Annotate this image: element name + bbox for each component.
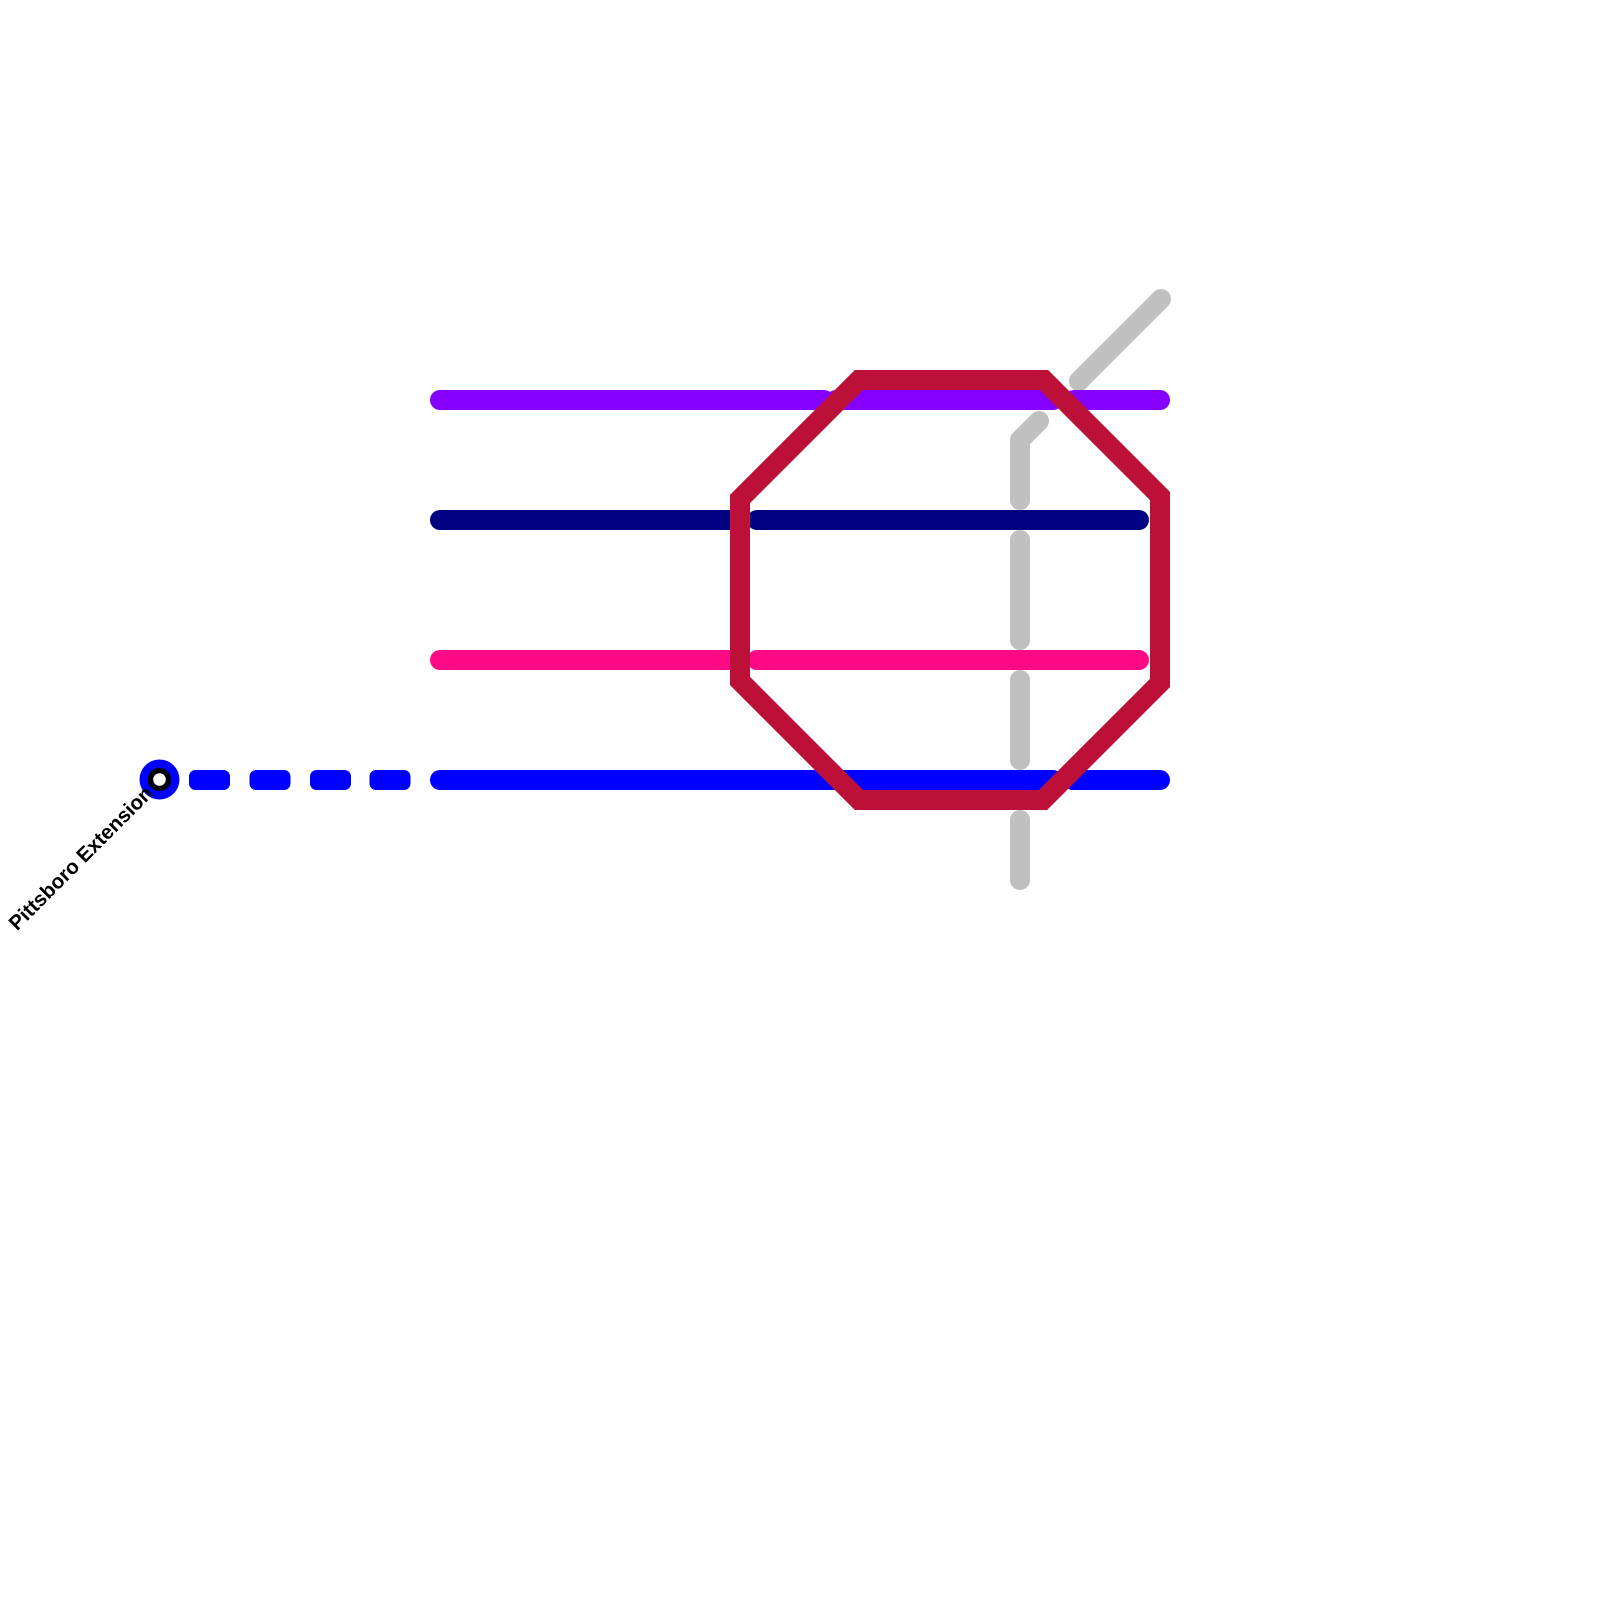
pink line y=660	[440, 650, 1139, 670]
gray segment: bend stub down to navy crossing	[1020, 421, 1039, 500]
gray upper diagonal segment toward top right	[1079, 299, 1161, 381]
navy line y=520	[440, 510, 1139, 530]
blue line solid portion y=780	[440, 770, 1160, 790]
gray segment: between navy and pink crossings	[1010, 540, 1030, 640]
gray segment: below blue crossing to lower end	[1010, 820, 1030, 880]
gray line (under everything), drawn in per-cell segments with round caps	[1020, 299, 1161, 880]
station marker: Pittsboro Extension terminus	[140, 760, 180, 800]
crimson octagon loop line (drawn over the straight lines)	[740, 380, 1160, 800]
gray segment: between pink and blue crossings	[1010, 680, 1030, 760]
purple line y=400 (drawn as segments; caps pinch at loop crossings)	[440, 390, 1160, 410]
blue line dashed portion (Pittsboro Extension)	[189, 770, 411, 790]
